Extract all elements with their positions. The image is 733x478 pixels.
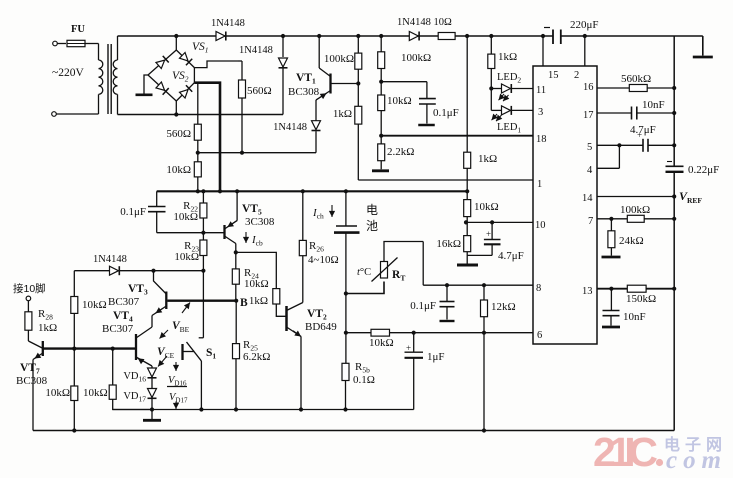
- pin 8: [536, 283, 541, 294]
- node: pin10 row junction: [464, 220, 468, 224]
- wire: bridge top stem: [175, 36, 177, 50]
- transistor VT2 BD649: [287, 303, 338, 410]
- transformer T1 core: [108, 44, 111, 114]
- node B: [234, 297, 248, 309]
- transformer T1 secondary winding: [113, 36, 117, 115]
- pin 17: [583, 110, 594, 121]
- svg-text:VCE: VCE: [157, 346, 175, 360]
- main bus (thick) y=191: [157, 190, 468, 192]
- node: S1 bottom: [199, 407, 203, 411]
- ground: bridge left vertex: [136, 75, 153, 95]
- svg-text:16kΩ: 16kΩ: [436, 238, 461, 250]
- resistor 10k (pin10 chain): [464, 200, 499, 236]
- diode 1N4148 top rail series: [211, 18, 245, 41]
- svg-text:RT: RT: [392, 269, 405, 283]
- node: 560ohm-1 bottom junction: [240, 151, 244, 155]
- wire: right-vertex to 560ohm: [194, 61, 242, 80]
- svg-text:com: com: [666, 447, 722, 474]
- resistor 24k: [608, 219, 644, 256]
- pin 14: [582, 193, 593, 204]
- node: main bus right end: [465, 189, 469, 193]
- node: 560ohm junction: [196, 151, 200, 155]
- svg-text:18: 18: [536, 134, 547, 145]
- node: 10k bottom rail: [72, 428, 76, 432]
- label ~220V: [52, 67, 84, 79]
- diode 1N4148 vertical (2nd): [239, 34, 288, 115]
- right bus with 0.22uF: [673, 36, 675, 431]
- resistor 1k (to VT2 base): [249, 289, 280, 307]
- node: R25 bottom: [234, 407, 238, 411]
- svg-text:VD17: VD17: [123, 391, 146, 404]
- svg-text:10kΩ: 10kΩ: [174, 251, 199, 263]
- capacitor 4.7uF (pin10): [467, 220, 524, 262]
- diode 1N4148 with 10ohm top right: [397, 17, 455, 41]
- pin 6: [537, 330, 542, 341]
- capacitor 0.1uF (pin8): [410, 283, 454, 321]
- transistor VT4 BC307: [102, 310, 152, 368]
- terminal: to pin 10: [26, 296, 31, 301]
- node: bus x303: [301, 189, 305, 193]
- pin 13: [582, 286, 593, 297]
- resistor 16k: [436, 236, 470, 264]
- svg-text:VBE: VBE: [172, 320, 190, 334]
- svg-text:VT7: VT7: [20, 362, 40, 376]
- thermistor RT: [346, 242, 423, 294]
- watermark dianziwang: [664, 435, 727, 454]
- wire: bottom rail: [33, 430, 674, 432]
- fuse FU: [67, 24, 99, 47]
- node: pin4-5 junction: [617, 143, 621, 147]
- svg-text:0.1μF: 0.1μF: [433, 107, 459, 119]
- resistor R22 10k: [173, 191, 207, 232]
- resistor R23 10k: [174, 233, 207, 271]
- svg-text:VD16: VD16: [123, 371, 146, 384]
- annotation VD17 voltage: [169, 392, 188, 409]
- svg-text:LED1: LED1: [497, 122, 521, 135]
- svg-text:10kΩ: 10kΩ: [45, 387, 70, 399]
- ground: below VD17: [143, 410, 161, 421]
- capacitor 220uF (rail series): [544, 19, 599, 44]
- svg-text:1N4148: 1N4148: [273, 122, 307, 133]
- svg-text:VT4: VT4: [113, 310, 133, 324]
- svg-text:8: 8: [536, 283, 541, 294]
- node: pin2 rail junction: [583, 34, 587, 66]
- resistor R25 6.2k: [233, 301, 271, 410]
- node: bus pin17: [672, 111, 676, 115]
- resistor 560ohm (bridge right): [238, 61, 272, 153]
- svg-text:0.1Ω: 0.1Ω: [353, 374, 375, 386]
- svg-text:VT5: VT5: [242, 203, 262, 217]
- wire: bottom rail from secondary: [118, 114, 284, 116]
- node: VT1 base junction: [356, 81, 360, 85]
- wire: pin18 row: [381, 135, 533, 137]
- wire: 1k to bus: [466, 168, 468, 199]
- terminal: AC input bottom: [52, 112, 57, 117]
- resistor 10k (left chain): [166, 153, 201, 192]
- wire: pin13 row with 150k: [597, 285, 674, 305]
- svg-text:10kΩ: 10kΩ: [369, 337, 394, 349]
- svg-text:0.1μF: 0.1μF: [410, 300, 436, 312]
- svg-text:1kΩ: 1kΩ: [249, 295, 268, 307]
- svg-text:10nF: 10nF: [642, 99, 665, 111]
- node: pin18 row left junction: [379, 134, 383, 138]
- svg-text:1μF: 1μF: [427, 351, 445, 363]
- node: VD17 bottom: [150, 407, 154, 411]
- svg-text:10kΩ: 10kΩ: [173, 211, 198, 223]
- svg-text:3C308: 3C308: [245, 216, 275, 228]
- label 10k (VT7): [45, 387, 70, 399]
- annotation Ich arrow: [312, 205, 335, 221]
- bridge diode upper-left: [156, 56, 169, 69]
- svg-text:BC308: BC308: [16, 375, 48, 387]
- svg-text:100kΩ: 100kΩ: [620, 204, 650, 216]
- svg-text:VT1: VT1: [296, 72, 316, 86]
- svg-text:VT2: VT2: [307, 308, 327, 322]
- wire: AC input top lead: [57, 43, 66, 45]
- svg-text:R26: R26: [309, 240, 324, 254]
- svg-text:220μF: 220μF: [570, 19, 599, 31]
- resistor 1k (below VT1 base): [333, 84, 362, 125]
- pin 2: [574, 70, 579, 81]
- node: bus pin16: [672, 86, 676, 90]
- wire: battery node down to pin6 row: [345, 294, 347, 333]
- svg-text:10kΩ: 10kΩ: [166, 164, 191, 176]
- node: bus x346: [344, 189, 348, 193]
- svg-text:4.7μF: 4.7μF: [498, 250, 524, 262]
- resistor 100k (2nd top): [378, 34, 431, 82]
- svg-text:2: 2: [574, 70, 579, 81]
- svg-text:1kΩ: 1kΩ: [333, 108, 352, 120]
- resistor 1k (pin1 chain): [464, 152, 497, 168]
- wire: chain x467 from rail: [466, 36, 468, 152]
- resistor R24 10k: [232, 252, 268, 300]
- node: VT7 collector junction: [72, 347, 76, 351]
- annotation Icb arrow: [243, 232, 263, 248]
- node: VT5 collector junction: [234, 250, 238, 254]
- wire: pin10 row: [466, 221, 533, 223]
- svg-text:10: 10: [535, 220, 546, 231]
- diode VD17: [123, 389, 156, 410]
- label VREF: [679, 189, 702, 205]
- svg-text:1: 1: [537, 179, 542, 190]
- wire: pin16 row with 560k: [597, 73, 674, 92]
- node: pin7 junction: [609, 217, 613, 221]
- svg-text:VREF: VREF: [679, 189, 702, 205]
- wire: VT1 base to divider: [331, 83, 359, 85]
- pin 16: [583, 82, 594, 93]
- svg-text:5: 5: [587, 142, 592, 153]
- bridge diode lower-right: [179, 85, 192, 98]
- resistor 560ohm (lower): [166, 124, 201, 140]
- node: bus pin13: [672, 287, 676, 291]
- svg-text:10nF: 10nF: [623, 311, 646, 323]
- pin 4: [587, 165, 593, 176]
- wire: top supply rail: [118, 36, 703, 56]
- resistor R5b 0.1ohm: [342, 333, 375, 410]
- svg-text:R5b: R5b: [355, 361, 370, 375]
- wire: pin14 VREF row: [597, 196, 674, 198]
- watermark 21IC: [593, 429, 663, 475]
- wire: 1k bottom to pin1 row: [358, 124, 533, 180]
- svg-text:6: 6: [537, 330, 542, 341]
- wire+resistor 10k horizontal (pin6): [346, 329, 533, 349]
- svg-text:17: 17: [583, 110, 594, 121]
- node: bus x237: [235, 189, 239, 193]
- capacitor 10nF (pin13): [602, 289, 646, 327]
- wire: thick drop from bridge to bus: [194, 83, 220, 192]
- node: bus VREF: [672, 194, 676, 198]
- svg-text:11: 11: [536, 85, 546, 96]
- label VS1: [192, 41, 209, 55]
- ground: below 24k: [602, 256, 621, 259]
- diode 1N4148 below VT1: [273, 121, 320, 153]
- rectifier bridge VS1 VS2 diamond: [148, 50, 194, 101]
- wire+capacitor 10nF pin17: [597, 99, 674, 120]
- wire: pin8 row: [423, 284, 533, 286]
- svg-text:0.1μF: 0.1μF: [120, 206, 146, 218]
- svg-text:VS2: VS2: [172, 70, 189, 84]
- label VS2: [172, 70, 189, 84]
- label battery chinese: [366, 203, 378, 233]
- svg-text:4.7μF: 4.7μF: [630, 124, 656, 136]
- svg-text:BD649: BD649: [305, 321, 337, 333]
- wire: horizontal node row y=152.7: [198, 152, 316, 154]
- pin 3: [538, 107, 543, 118]
- svg-text:560kΩ: 560kΩ: [621, 73, 651, 85]
- capacitor 0.1uF (VT5 base): [120, 191, 165, 232]
- annotation VD16-VD17 divider: [167, 386, 187, 388]
- svg-text:16: 16: [583, 82, 594, 93]
- node: 100k-10k junction: [379, 80, 383, 84]
- node: battery bottom junction: [344, 291, 348, 295]
- pin 15: [548, 70, 559, 81]
- ground: below 2.2k: [372, 169, 389, 172]
- pin 18: [536, 134, 547, 145]
- svg-text:BC308: BC308: [288, 86, 320, 98]
- bridge diode upper-right: [179, 52, 192, 65]
- svg-text:10kΩ: 10kΩ: [83, 387, 108, 399]
- transformer T1 primary winding: [99, 44, 103, 115]
- node: R22-R23 junction: [201, 231, 205, 235]
- wire: pin7 row with 100k: [597, 204, 674, 222]
- svg-text:R28: R28: [38, 308, 53, 322]
- capacitor 0.1uF (RC filter): [381, 82, 459, 125]
- svg-text:10kΩ: 10kΩ: [387, 95, 412, 107]
- svg-text:100kΩ: 100kΩ: [324, 53, 354, 65]
- svg-text:Icb: Icb: [251, 234, 263, 248]
- node: bridge bottom junction: [174, 112, 178, 116]
- svg-text:14: 14: [582, 193, 593, 204]
- svg-text:21IC: 21IC: [593, 429, 657, 475]
- svg-text:池: 池: [366, 219, 378, 233]
- svg-text:24kΩ: 24kΩ: [619, 235, 644, 247]
- svg-text:6.2kΩ: 6.2kΩ: [243, 351, 270, 363]
- pin 5: [587, 142, 592, 153]
- svg-text:7: 7: [588, 216, 593, 227]
- resistor 12k: [481, 283, 516, 430]
- wire: mid ground rail y=409.5: [113, 409, 414, 411]
- node: bus x220: [218, 189, 222, 193]
- node: bus x203.4: [201, 189, 205, 193]
- LED1: [491, 106, 533, 135]
- node: rail junction x467: [465, 34, 469, 38]
- svg-text:BC307: BC307: [102, 323, 134, 335]
- node: bus pin7: [672, 217, 676, 221]
- transistor VT5 3C308: [225, 191, 275, 252]
- terminal: AC input top: [53, 41, 58, 46]
- resistor 10k (x112): [83, 347, 152, 410]
- resistor R28 1k: [25, 301, 57, 334]
- svg-text:10kΩ: 10kΩ: [244, 278, 269, 290]
- svg-text:FU: FU: [71, 24, 85, 35]
- annotation VCE: [157, 346, 175, 367]
- svg-text:100kΩ: 100kΩ: [401, 52, 431, 64]
- resistor 100k (VT1 top): [324, 34, 362, 84]
- node: bus x197.8: [196, 189, 200, 193]
- wire: 560ohm-2 to node: [197, 140, 199, 153]
- pin 7: [588, 216, 593, 227]
- capacitor 0.22uF (bus series): [666, 162, 720, 177]
- svg-text:4: 4: [587, 165, 593, 176]
- svg-text:S1: S1: [206, 347, 216, 361]
- svg-text:Ich: Ich: [312, 207, 324, 221]
- svg-text:12kΩ: 12kΩ: [491, 301, 516, 313]
- svg-text:BC307: BC307: [108, 296, 140, 308]
- resistor 10k (mid): [378, 82, 412, 136]
- wire: thick base row to B: [168, 300, 237, 302]
- diode 1N4148 (left): [74, 254, 203, 275]
- svg-text:3: 3: [538, 107, 543, 118]
- wire: VT5 collector to 1k: [236, 252, 276, 288]
- IC U1 box: [533, 66, 597, 344]
- svg-text:VD17: VD17: [169, 392, 188, 405]
- svg-text:0.22μF: 0.22μF: [688, 164, 719, 176]
- svg-text:560Ω: 560Ω: [247, 85, 272, 97]
- svg-text:LED2: LED2: [497, 72, 521, 85]
- transistor VT3 BC307: [108, 271, 166, 327]
- node: pin15 rail junction: [541, 34, 545, 66]
- resistor 1k (LED): [488, 36, 517, 110]
- wire+capacitor 4.7uF pin5: [597, 124, 674, 152]
- annotation VBE: [160, 303, 191, 339]
- annotation VD16 voltage: [168, 362, 187, 388]
- svg-text:t°C: t°C: [357, 267, 371, 278]
- node: R5b bottom: [343, 407, 347, 411]
- wire: VT5 base row: [157, 232, 225, 234]
- ground: top right rail: [693, 56, 713, 59]
- svg-text:4~10Ω: 4~10Ω: [308, 254, 339, 266]
- wire: pin4 to pin5 row: [597, 145, 619, 168]
- label 接10脚: [13, 282, 46, 295]
- svg-text:10kΩ: 10kΩ: [474, 201, 499, 213]
- resistor R26 4-10ohm: [299, 191, 338, 302]
- wire: AC input bottom lead: [56, 113, 98, 115]
- node: pin13 junction: [609, 287, 613, 291]
- node: LED chain top: [489, 34, 493, 38]
- svg-text:1kΩ: 1kΩ: [478, 153, 497, 165]
- svg-text:1kΩ: 1kΩ: [38, 322, 57, 334]
- svg-text:1kΩ: 1kΩ: [498, 51, 517, 63]
- wire: bridge bottom stem: [175, 101, 177, 115]
- pin 11: [536, 85, 546, 96]
- transistor VT7 BC308: [16, 330, 136, 430]
- node: pin6 row left: [344, 331, 348, 335]
- svg-text:15: 15: [548, 70, 559, 81]
- svg-text:1N4148: 1N4148: [93, 254, 127, 265]
- node: R23 bottom junction: [201, 269, 205, 273]
- svg-text:电: 电: [366, 203, 378, 217]
- svg-text:VD16: VD16: [168, 375, 187, 388]
- LED2: [491, 72, 533, 101]
- svg-text:B: B: [240, 297, 248, 309]
- resistor 10k (upper left): [71, 271, 107, 349]
- wire: 560ohm-2 feed from bridge: [197, 83, 199, 125]
- svg-text:2.2kΩ: 2.2kΩ: [387, 146, 414, 158]
- svg-text:接10脚: 接10脚: [13, 282, 46, 295]
- svg-text:10kΩ: 10kΩ: [82, 299, 107, 311]
- svg-text:150kΩ: 150kΩ: [626, 293, 656, 305]
- bridge diode lower-left: [156, 82, 169, 95]
- svg-text:1N4148: 1N4148: [239, 45, 273, 56]
- watermark com: [666, 447, 722, 474]
- resistor 10k (lower left): [71, 349, 78, 431]
- svg-text:13: 13: [582, 286, 593, 297]
- svg-text:VT3: VT3: [128, 283, 148, 297]
- node: bridge top junction: [174, 34, 178, 38]
- node: bus pin5: [672, 143, 676, 147]
- pin 1: [537, 179, 542, 190]
- svg-text:1N4148: 1N4148: [211, 18, 245, 29]
- ground: below 16k: [457, 264, 478, 267]
- diode VD16: [123, 368, 156, 389]
- svg-text:+: +: [486, 229, 491, 239]
- resistor 2.2k: [378, 136, 415, 170]
- node: VT2 emitter bottom: [299, 407, 303, 411]
- transistor VT1 BC308: [288, 34, 331, 121]
- wire: 1k to VT2 base: [276, 304, 286, 316]
- node: 12k bottom: [482, 428, 486, 432]
- svg-text:560Ω: 560Ω: [166, 128, 191, 140]
- node: LED2 junction: [489, 86, 493, 90]
- battery 电池: [334, 191, 360, 293]
- svg-text:VS1: VS1: [192, 41, 209, 55]
- capacitor 1uF: [405, 331, 445, 410]
- svg-text:1N4148 10Ω: 1N4148 10Ω: [397, 17, 452, 28]
- pin 10: [535, 220, 546, 231]
- svg-text:~220V: ~220V: [52, 67, 84, 79]
- switch S1: [183, 271, 217, 410]
- node: VT3 collector junction: [151, 269, 155, 273]
- node: 12k pin6 crossing: [482, 331, 486, 335]
